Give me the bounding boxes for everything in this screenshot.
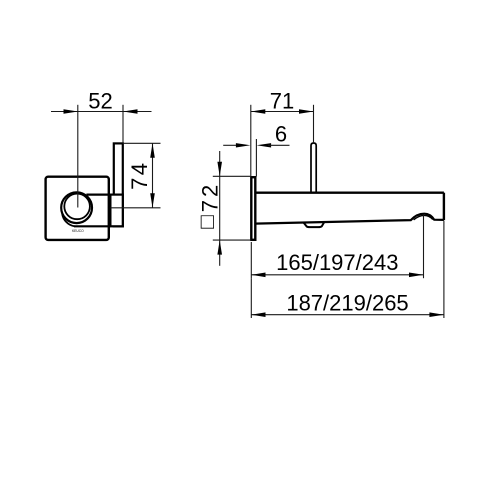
dim 165/197/243: left arrow (251, 273, 266, 278)
svg-text:187/219/265: 187/219/265 (286, 291, 408, 316)
knob outer circle (61, 192, 92, 223)
dim 165/197/243: left extension (250, 242, 252, 278)
svg-text:6: 6 (275, 122, 287, 147)
svg-text:KEUCO: KEUCO (72, 229, 84, 233)
dim 74: vertical line (152, 143, 154, 208)
spout top edge (255, 191, 444, 193)
dim 72: bottom extension (213, 239, 251, 241)
knob skirt arc (62, 214, 74, 226)
dim 74: bottom reference line (111, 207, 161, 209)
dim 187/219/265: right arrow (429, 312, 444, 317)
dim 74: reference arrow to plate (under side view) (108, 206, 119, 210)
dim 52: extension right (122, 105, 124, 144)
dim 165/197/243: right arrow (409, 273, 424, 278)
dim 72: top extension (213, 175, 250, 177)
dim 74: bottom arrow (150, 193, 155, 208)
dim 165/197/243: right extension (423, 215, 425, 279)
dim 72: top arrow (217, 162, 222, 177)
dim 71: right arrow (299, 109, 314, 114)
knob top line to side view (86, 194, 110, 196)
dim 52: left arrow (64, 109, 79, 114)
dim 187/219/265: line (251, 314, 444, 316)
svg-text:165/197/243: 165/197/243 (276, 250, 398, 275)
dim 52: line (51, 111, 152, 113)
knob inner circle (64, 194, 90, 220)
dim 187/219/265: right extension (443, 221, 445, 318)
pin extension line (313, 105, 315, 143)
dim 6: right arrow with tail (257, 143, 272, 147)
dim 71: wall extension line (250, 105, 252, 177)
dim 72: vertical line (219, 151, 221, 266)
center line through knob (77, 105, 79, 208)
svg-text:□72: □72 (194, 182, 222, 229)
dim 6: left arrow with tail (223, 144, 236, 146)
aerator hump inner arc (414, 215, 433, 220)
dim 187/219/265: left arrow (251, 312, 266, 317)
dim 187/219/265: left extension continues (250, 278, 252, 318)
side view knob block (110, 195, 122, 227)
square escutcheon plate (front view) (46, 177, 109, 240)
lever pin (311, 143, 316, 193)
dim 74: top arrow (150, 143, 155, 158)
dim 72: bottom arrow (217, 240, 222, 255)
dim 6: right extension line (255, 139, 257, 177)
dim 71: left arrow (251, 109, 265, 114)
dim 71: line (251, 111, 314, 113)
svg-text:71: 71 (270, 89, 294, 114)
cartridge pocket under spout (304, 223, 324, 228)
dim 74: top extension (123, 142, 161, 144)
knob bottom line to side view (74, 225, 110, 227)
side view tall plate (114, 143, 123, 226)
dim 52: right arrow (123, 109, 138, 114)
spout bottom edge with aerator hump (255, 214, 444, 224)
svg-text:52: 52 (88, 89, 112, 114)
spout tip face (443, 193, 445, 221)
dim 165/197/243: line (251, 274, 424, 276)
wall plate (side) (251, 177, 255, 240)
svg-text:74: 74 (127, 160, 152, 189)
